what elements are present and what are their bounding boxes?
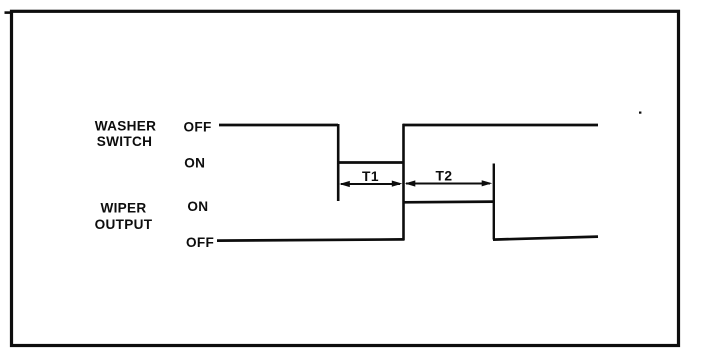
- T1 dimension arrow line: [339, 181, 402, 188]
- svg-text:T2: T2: [436, 169, 453, 184]
- svg-text:WASHER: WASHER: [95, 119, 156, 134]
- svg-text:ON: ON: [184, 156, 205, 171]
- washer switch OFF level wire (left segment): [219, 124, 338, 127]
- wiper output OFF level wire (left segment): [217, 239, 404, 240]
- wiper output falling edge wire with T2 extension: [493, 164, 495, 240]
- svg-text:OFF: OFF: [184, 120, 212, 135]
- svg-text:OUTPUT: OUTPUT: [95, 217, 153, 232]
- washer switch falling edge wire with T1 extension: [337, 124, 340, 201]
- wiper output OFF level wire (right segment): [493, 237, 598, 240]
- stray scan speck: [639, 112, 641, 114]
- svg-text:ON: ON: [187, 199, 208, 214]
- svg-text:T1: T1: [362, 169, 379, 184]
- svg-text:OFF: OFF: [186, 235, 214, 250]
- washer switch rising edge wire with extension to wiper output: [402, 124, 405, 241]
- svg-text:WIPER: WIPER: [100, 201, 146, 216]
- wiper output ON level wire: [403, 200, 495, 203]
- svg-text:SWITCH: SWITCH: [97, 134, 152, 149]
- washer switch ON level wire: [337, 161, 404, 164]
- border frame: [5, 11, 13, 14]
- washer switch OFF level wire (right segment): [403, 124, 598, 127]
- T2 dimension arrow line: [405, 180, 492, 186]
